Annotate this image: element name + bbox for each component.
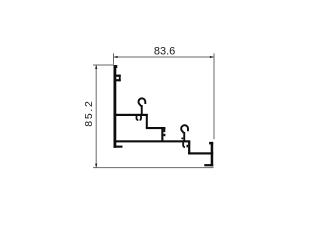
screw channel upper tab <box>116 75 121 77</box>
hook 1 stem <box>141 105 143 115</box>
screw channel upper lip <box>119 75 121 78</box>
left wall bottom foot <box>114 146 123 148</box>
web 4 <box>188 152 213 154</box>
right bar <box>211 142 214 166</box>
web 1 (upper horizontal) <box>115 114 148 116</box>
arrow top (85.2) <box>95 65 97 69</box>
connector top-right lip <box>163 127 165 132</box>
connector right nub <box>163 134 165 136</box>
arrow right (83.6) <box>210 56 214 58</box>
svg-text:85.2: 85.2 <box>83 99 95 126</box>
left wall top cap <box>114 65 118 68</box>
gasket groove 1 left leg <box>137 116 139 120</box>
web 3 (long horizontal) <box>115 140 190 142</box>
dimension line 83.6 <box>114 56 214 58</box>
dimension line 85.2 <box>95 65 97 168</box>
extension line top (85.2) <box>93 64 114 66</box>
right bar top cap <box>209 142 213 145</box>
gasket groove 2 leg <box>183 142 185 147</box>
arrow bottom (85.2) <box>95 164 97 168</box>
screw channel lower lip <box>119 78 121 81</box>
hook 2 curl <box>181 125 188 133</box>
left wall <box>114 65 117 148</box>
step wall 2 <box>188 141 190 155</box>
screw channel lower tab <box>116 79 121 81</box>
right bar bottom foot <box>204 164 213 166</box>
hook 1 curl <box>139 98 146 106</box>
step wall 1 <box>146 114 148 128</box>
web 2 <box>146 127 166 129</box>
hook 2 left nub <box>181 138 183 140</box>
extension line left (83.6) <box>113 53 115 64</box>
extension line bottom (85.2), baseline under profile <box>93 167 214 169</box>
step wall 2 left nub <box>187 145 189 148</box>
svg-text:83.6: 83.6 <box>154 46 175 58</box>
gasket groove 1 right leg <box>140 116 141 120</box>
extension line right (83.6) <box>213 53 215 139</box>
arrow left (83.6) <box>114 56 118 58</box>
hook 2 stem <box>183 132 185 141</box>
connector wall (web2 to web3) <box>161 127 163 142</box>
